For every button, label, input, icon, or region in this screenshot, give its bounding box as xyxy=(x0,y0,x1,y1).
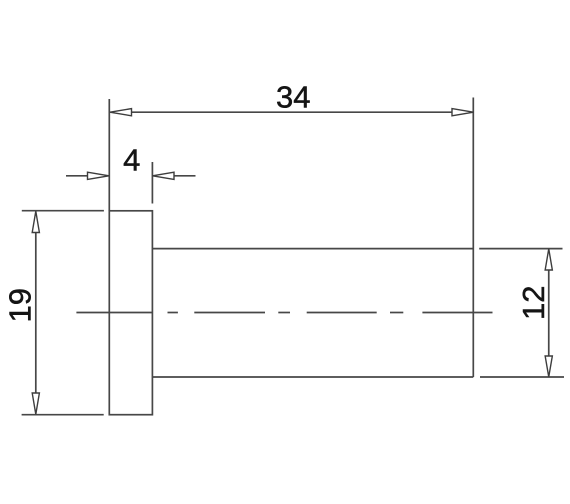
svg-text:19: 19 xyxy=(2,288,37,322)
svg-text:4: 4 xyxy=(123,142,140,177)
svg-text:12: 12 xyxy=(516,286,551,320)
svg-text:34: 34 xyxy=(276,80,310,115)
